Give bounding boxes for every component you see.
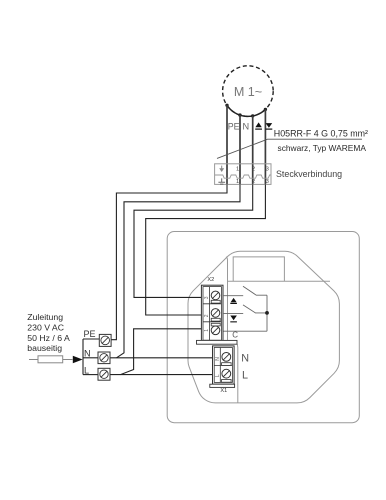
fuse [38,356,63,363]
supply PE terminal [99,334,111,346]
motor terminal dots [225,104,228,107]
svg-text:Zuleitung: Zuleitung [27,312,63,322]
supply branch L [83,374,98,376]
svg-text:50 Hz / 6 A: 50 Hz / 6 A [27,333,70,343]
svg-text:N: N [241,352,249,364]
svg-text:bauseitig: bauseitig [27,343,62,353]
svg-text:N: N [215,357,221,361]
X1 pedestal [210,384,235,387]
wire PE: connector to supply PE terminal [111,184,227,339]
rocker button [233,257,284,281]
svg-text:1: 1 [204,329,210,332]
junction dot [265,311,269,315]
motor bottom solid arc [227,105,265,116]
wire N: connector to supply N node [117,184,241,357]
svg-text:schwarz, Typ WAREMA: schwarz, Typ WAREMA [278,143,367,153]
switch stub up [223,295,243,297]
module right edge line B [236,344,239,403]
svg-text:2: 2 [252,179,255,185]
svg-text:3: 3 [266,167,269,173]
motor cable wire PE (thick) [226,105,228,184]
svg-text:N: N [242,122,249,132]
rocker base line [228,280,331,282]
svg-text:X2: X2 [207,277,214,283]
supply bus vertical [82,339,84,375]
supply branch PE [83,338,99,340]
motor cable wire down (thick) [264,109,266,184]
X2 terminal block [201,285,223,342]
svg-text:Steckverbindung: Steckverbindung [276,169,342,179]
svg-text:H05RR-F 4 G 0,75 mm²: H05RR-F 4 G 0,75 mm² [274,128,368,138]
switch common vertical [266,295,268,331]
switch arm up [243,286,267,295]
X1 terminal block [213,346,235,384]
svg-text:L: L [215,374,221,377]
supply feeder line [29,359,73,361]
svg-text:3: 3 [266,179,269,185]
svg-text:PE: PE [84,329,96,339]
svg-text:L: L [242,370,248,382]
motor cable wire N (thick) [239,115,241,184]
wire L branch to X2-C [121,329,202,375]
motor down symbol [266,123,273,128]
svg-text:2: 2 [252,167,255,173]
switch arm down [243,305,267,313]
connector mid line with plug notches [215,175,271,178]
wall plate frame [167,232,359,423]
motor up symbol [255,122,261,127]
connector earth symbol [218,178,225,184]
cable leader line [217,139,362,158]
svg-text:M 1~: M 1~ [234,85,262,99]
motor M1 dashed circle [223,66,274,117]
module left edge line A [226,257,227,341]
supply branch N [83,357,98,359]
wire up: connector to X2-1 [134,184,253,297]
svg-text:C: C [232,331,238,340]
down symbol at X2 [230,316,237,321]
svg-text:2: 2 [204,314,210,317]
supply N terminal [98,352,110,364]
switch stub down [223,312,243,314]
svg-text:PE: PE [228,122,240,132]
switch common return to C [224,330,268,332]
motor cable wire up (thick) [252,116,254,184]
wire L horizontal to X1 [110,374,212,376]
device body outline [188,251,339,403]
feeder arrow [73,356,83,363]
wire N horizontal to X1 [110,357,212,359]
svg-text:230 V AC: 230 V AC [27,323,64,333]
connector block outline [215,164,271,185]
svg-text:L: L [84,365,89,375]
wire down: connector to X2-2 [146,184,266,315]
svg-text:3: 3 [204,296,210,299]
svg-text:1: 1 [236,179,239,185]
connector plug-in arrow symbol [221,166,223,169]
svg-text:N: N [84,349,91,359]
svg-text:1: 1 [236,167,239,173]
svg-text:X1: X1 [220,388,227,394]
X2 pedestal [197,340,238,344]
up symbol at X2 [231,298,237,303]
supply L terminal [98,368,110,380]
